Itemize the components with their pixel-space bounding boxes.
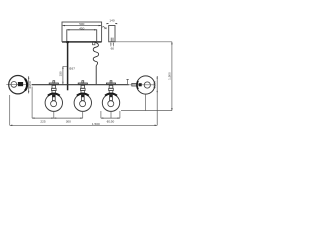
hanger bracket 3 (106, 81, 115, 85)
svg-text:60: 60 (111, 47, 115, 51)
right bulb diameter dim 200 (153, 76, 158, 125)
rod-canopy junction nut (66, 41, 69, 43)
overall height dim 1500 (168, 42, 173, 111)
bottom dim row 1 (32, 118, 83, 124)
bar right end tick (126, 79, 128, 84)
pendant bulb 1 (45, 85, 62, 111)
svg-text:300: 300 (66, 120, 71, 124)
bulb3 extension (110, 112, 112, 119)
left bottom extension line (9, 95, 11, 125)
bar (32, 84, 129, 86)
overall width dim 1500 (10, 122, 158, 126)
right bulb bottom extension (145, 94, 147, 110)
cable gland on canopy bottom (93, 42, 95, 45)
svg-text:150: 150 (59, 71, 63, 76)
right end clamp (132, 83, 137, 86)
canopy front view outer rect (62, 22, 102, 42)
left end bulb center line (6, 84, 26, 86)
ceiling reference line (115, 41, 172, 43)
canopy inner dim 450 (67, 26, 97, 30)
pendant bulb 2 (74, 85, 91, 111)
svg-text:140: 140 (109, 19, 114, 23)
cable straight segment (95, 66, 97, 85)
hanger bracket 1 (49, 81, 58, 85)
hanger bracket 2 (78, 81, 87, 85)
canopy width dim 500 (62, 22, 101, 26)
right end bulb (137, 76, 155, 94)
svg-text:225: 225 (40, 120, 45, 124)
bulb3 diameter dim 150 (101, 111, 120, 123)
drop rod (67, 42, 69, 91)
svg-text:1,500: 1,500 (92, 122, 100, 126)
side view stem dim 60 (110, 42, 114, 51)
coiled cable (93, 42, 98, 65)
canopy side view rect (109, 26, 115, 42)
break tilde marks (102, 27, 106, 29)
bulb1 extension (53, 112, 55, 119)
svg-text:Φ200: Φ200 (28, 81, 32, 89)
svg-text:Φ37: Φ37 (69, 67, 75, 71)
svg-text:Φ200: Φ200 (153, 81, 157, 89)
svg-text:1,500: 1,500 (168, 72, 172, 80)
side view stem lines (110, 38, 112, 42)
bar left end extension (31, 87, 33, 119)
rod length dim (59, 66, 67, 84)
side view width dim 140 (107, 19, 118, 25)
bottom level reference line (121, 110, 172, 112)
svg-text:Φ150: Φ150 (107, 119, 115, 123)
right end bulb center line (129, 84, 155, 86)
pendant bulb 3 (102, 85, 119, 111)
left bulb diameter dim 200 (28, 76, 32, 93)
svg-text:450: 450 (79, 26, 84, 30)
left end bulb (9, 76, 27, 94)
canopy inner rect (450 mounting) (67, 30, 97, 42)
bulb2 extension (82, 112, 84, 119)
